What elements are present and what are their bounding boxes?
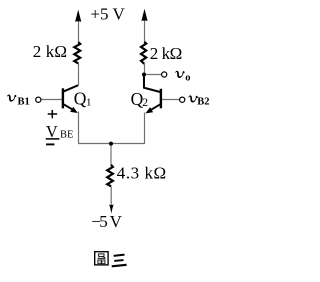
- svg-text:BE: BE: [60, 130, 73, 141]
- svg-text:+5 V: +5 V: [90, 5, 125, 24]
- svg-text:5: 5: [99, 212, 108, 231]
- svg-text:4.3 kΩ: 4.3 kΩ: [117, 164, 166, 183]
- svg-text:2 kΩ: 2 kΩ: [150, 44, 183, 63]
- svg-text:B1: B1: [18, 96, 30, 107]
- svg-text:Q: Q: [74, 89, 87, 109]
- svg-text:V: V: [110, 212, 123, 231]
- svg-text:V: V: [46, 122, 58, 141]
- svg-text:2 kΩ: 2 kΩ: [33, 42, 67, 61]
- svg-text:B2: B2: [197, 96, 209, 107]
- svg-text:1: 1: [86, 96, 92, 108]
- svg-text:2: 2: [142, 97, 148, 109]
- svg-text:o: o: [185, 73, 190, 84]
